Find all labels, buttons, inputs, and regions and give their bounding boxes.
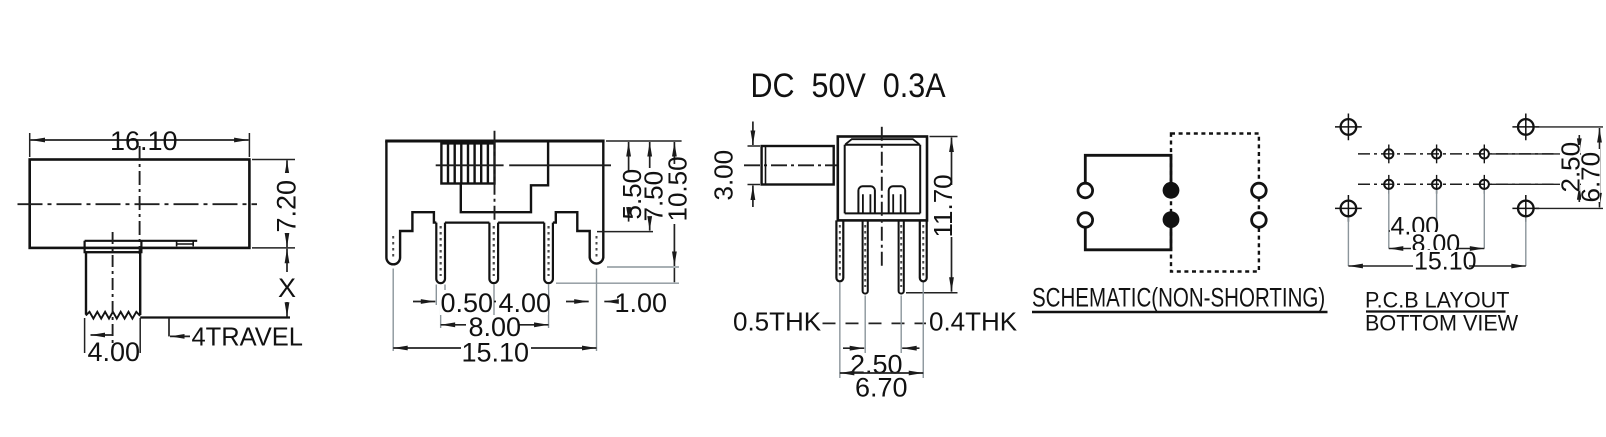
dim text 15.10: [1413, 248, 1477, 276]
svg-text:1.00: 1.00: [615, 288, 668, 318]
contact post left: [858, 186, 875, 213]
dim 6.70 line: [840, 372, 923, 374]
dim 2.50 arrows (outside): [843, 347, 864, 349]
solid link bottom: [1085, 227, 1171, 250]
dim 4.00 (pins 2-3) line: [494, 301, 549, 303]
slot far-end marks: [177, 242, 194, 247]
actuator knob (side): [762, 146, 834, 185]
dim text 8.00: [1411, 230, 1460, 258]
common contact bottom (filled): [1163, 211, 1180, 228]
gray extension verticals: [1348, 190, 1525, 266]
vertical centerline of body: [139, 146, 141, 254]
dim text 15.10: [461, 337, 531, 367]
horizontal centerline: [18, 203, 258, 205]
dim 4.00 arrow: [91, 334, 114, 336]
label underline: [1366, 310, 1506, 312]
extension line at bracket bottom: [597, 231, 653, 233]
terminal circle bottom-left: [1078, 213, 1093, 228]
knob centerline: [744, 164, 838, 166]
dim 6.70 line: [1599, 128, 1601, 207]
mounting leg right: [920, 220, 927, 281]
vertical centerline: [494, 131, 496, 222]
dim 8.00 line: [1389, 248, 1485, 250]
gray extension verticals below: [393, 269, 596, 352]
dim 10.50 line: [673, 142, 675, 164]
dim 3.00 extensions: [748, 146, 761, 185]
label SCHEMATIC(NON-SHORTING): [1032, 283, 1325, 313]
mounting hole bottom-left: [1335, 195, 1362, 222]
svg-text:SCHEMATIC(NON-SHORTING): SCHEMATIC(NON-SHORTING): [1032, 283, 1325, 313]
dim 16.10 extension lines: [30, 133, 250, 157]
svg-text:3.00: 3.00: [709, 150, 739, 201]
body outer outline: [838, 137, 927, 221]
top extension line for dims: [606, 140, 682, 142]
knob flange: [85, 241, 142, 252]
label P.C.B LAYOUT: [1365, 287, 1509, 313]
dim 5.50 line: [628, 142, 630, 172]
base line segments between pins: [445, 222, 544, 224]
terminal circle top-left: [1078, 183, 1093, 198]
knob body with break (zigzag) bottom: [86, 252, 140, 315]
right side profile with mounting leg: [553, 141, 603, 264]
mounting hole top-right: [1512, 114, 1539, 141]
svg-text:7.20: 7.20: [272, 180, 302, 233]
dim 11.70 extensions: [906, 137, 958, 293]
label BOTTOM VIEW: [1365, 310, 1518, 336]
mounting hole bottom-right: [1512, 195, 1539, 222]
svg-text:4.00: 4.00: [88, 337, 141, 367]
knurl lines: [448, 143, 488, 183]
lid chamfer: [846, 139, 920, 144]
pin holes row 2: [1384, 175, 1393, 194]
extension line at leg tips: [607, 266, 679, 268]
dim text 7.20 (rotated): [272, 173, 302, 233]
body top edge: [385, 140, 604, 143]
terminal circle top-right: [1252, 183, 1267, 198]
pin right: [899, 220, 904, 293]
dim 7.20 line: [286, 160, 288, 247]
gray extension verticals: [840, 283, 923, 379]
svg-text:15.10: 15.10: [462, 337, 530, 367]
travel reference line: [140, 316, 290, 318]
svg-text:0.4THK: 0.4THK: [929, 307, 1018, 337]
title text DC 50V 0.3A: [751, 66, 946, 104]
dim 15.10 line: [393, 347, 596, 349]
dim 2.50 extensions: [1492, 154, 1583, 184]
svg-text:BOTTOM VIEW: BOTTOM VIEW: [1365, 310, 1518, 336]
svg-text:X: X: [278, 273, 296, 303]
svg-text:16.10: 16.10: [110, 126, 178, 156]
label underline: [1032, 311, 1328, 313]
common contact top (filled): [1163, 182, 1180, 199]
pin interior texture: [865, 225, 901, 287]
pin holes row 1: [1384, 145, 1393, 164]
terminal circle bottom-right: [1252, 213, 1267, 228]
dim text 6.70 (rotated): [1576, 149, 1606, 203]
knob horizontal centerline: [436, 164, 611, 166]
svg-text:15.10: 15.10: [1414, 248, 1477, 276]
slot top edge line: [85, 240, 198, 242]
dim 8.00 line: [441, 324, 549, 326]
dim 3.00 arrows (outside): [752, 122, 754, 146]
dim 0.50 arrows: [413, 301, 435, 303]
extension line at pin tips: [556, 282, 679, 284]
dim 16.10 line: [31, 139, 249, 141]
stub between leg tip and pin tip: [673, 268, 675, 282]
dim 7.20 extensions: [252, 160, 295, 248]
dim 7.50 line: [649, 142, 651, 168]
dim 4.00 extensions: [85, 318, 141, 353]
dim 11.70 line: [951, 138, 953, 186]
dim 6.70 extensions: [1536, 127, 1603, 208]
dim text 8.00: [466, 312, 521, 342]
dim texts 0.50 4.00 1.00: [440, 288, 667, 318]
contact post right: [889, 186, 906, 213]
pin 2: [489, 223, 498, 284]
dashed housing rectangle: [1171, 134, 1259, 272]
dim 15.10 line: [1348, 265, 1525, 267]
svg-text:DC 50V 0.3A: DC 50V 0.3A: [751, 66, 946, 104]
pin 3: [544, 223, 553, 284]
pin 1: [436, 223, 445, 284]
pin interior texture: [441, 226, 549, 276]
knurled knob: [441, 143, 494, 183]
svg-text:P.C.B LAYOUT: P.C.B LAYOUT: [1365, 287, 1509, 313]
svg-text:0.5THK: 0.5THK: [733, 307, 822, 337]
dim 4.00 line: [1389, 230, 1437, 232]
mounting hole top-left: [1335, 114, 1362, 141]
svg-text:10.50: 10.50: [663, 156, 693, 221]
leg interior texture: [840, 225, 923, 276]
knob centerline: [112, 232, 114, 350]
dim X line: [286, 249, 288, 317]
dim 2.50 arrows (outside): [1578, 135, 1580, 153]
THK leader dashed: [823, 322, 927, 324]
dim text 2.50 (rotated): [1555, 142, 1585, 193]
leg interior texture: [393, 236, 596, 260]
svg-text:6.70: 6.70: [855, 373, 908, 403]
dim 1.00 (leg width) arrows: [566, 301, 589, 303]
mounting leg left: [836, 220, 843, 281]
switch body outline (top view): [30, 160, 250, 248]
knob end inner line: [765, 147, 767, 185]
solid link top: [1085, 155, 1171, 184]
svg-text:4TRAVEL: 4TRAVEL: [192, 324, 304, 352]
body inner walls: [845, 145, 921, 214]
pin left: [863, 220, 868, 293]
dim text X: [274, 272, 300, 303]
svg-text:11.70: 11.70: [928, 174, 958, 237]
housing lower outline: [461, 141, 548, 212]
svg-text:6.70: 6.70: [1576, 152, 1606, 203]
left side profile with mounting leg: [386, 141, 436, 264]
body vertical centerline: [881, 127, 883, 269]
row centerlines: [1358, 153, 1554, 155]
4TRAVEL leader: [168, 318, 170, 336]
dim text 4.00: [1390, 213, 1439, 241]
